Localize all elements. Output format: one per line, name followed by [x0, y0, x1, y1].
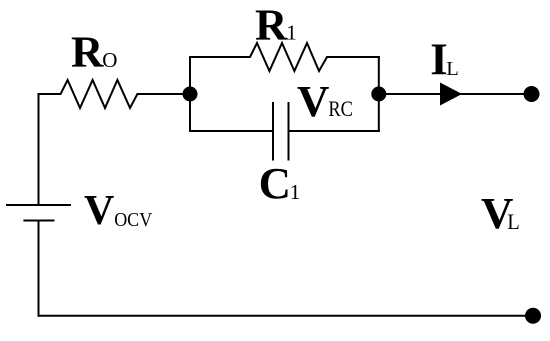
svg-text:1: 1 — [286, 21, 297, 45]
svg-text:1: 1 — [290, 180, 301, 204]
svg-text:I: I — [430, 34, 448, 84]
svg-text:V: V — [84, 188, 114, 234]
svg-text:V: V — [297, 76, 329, 126]
svg-text:C: C — [259, 158, 291, 208]
svg-text:L: L — [446, 58, 459, 80]
svg-text:L: L — [507, 209, 520, 234]
svg-text:R: R — [71, 26, 104, 76]
svg-text:O: O — [102, 48, 117, 72]
svg-text:RC: RC — [328, 96, 353, 121]
svg-text:OCV: OCV — [114, 210, 152, 231]
svg-text:R: R — [255, 0, 288, 49]
